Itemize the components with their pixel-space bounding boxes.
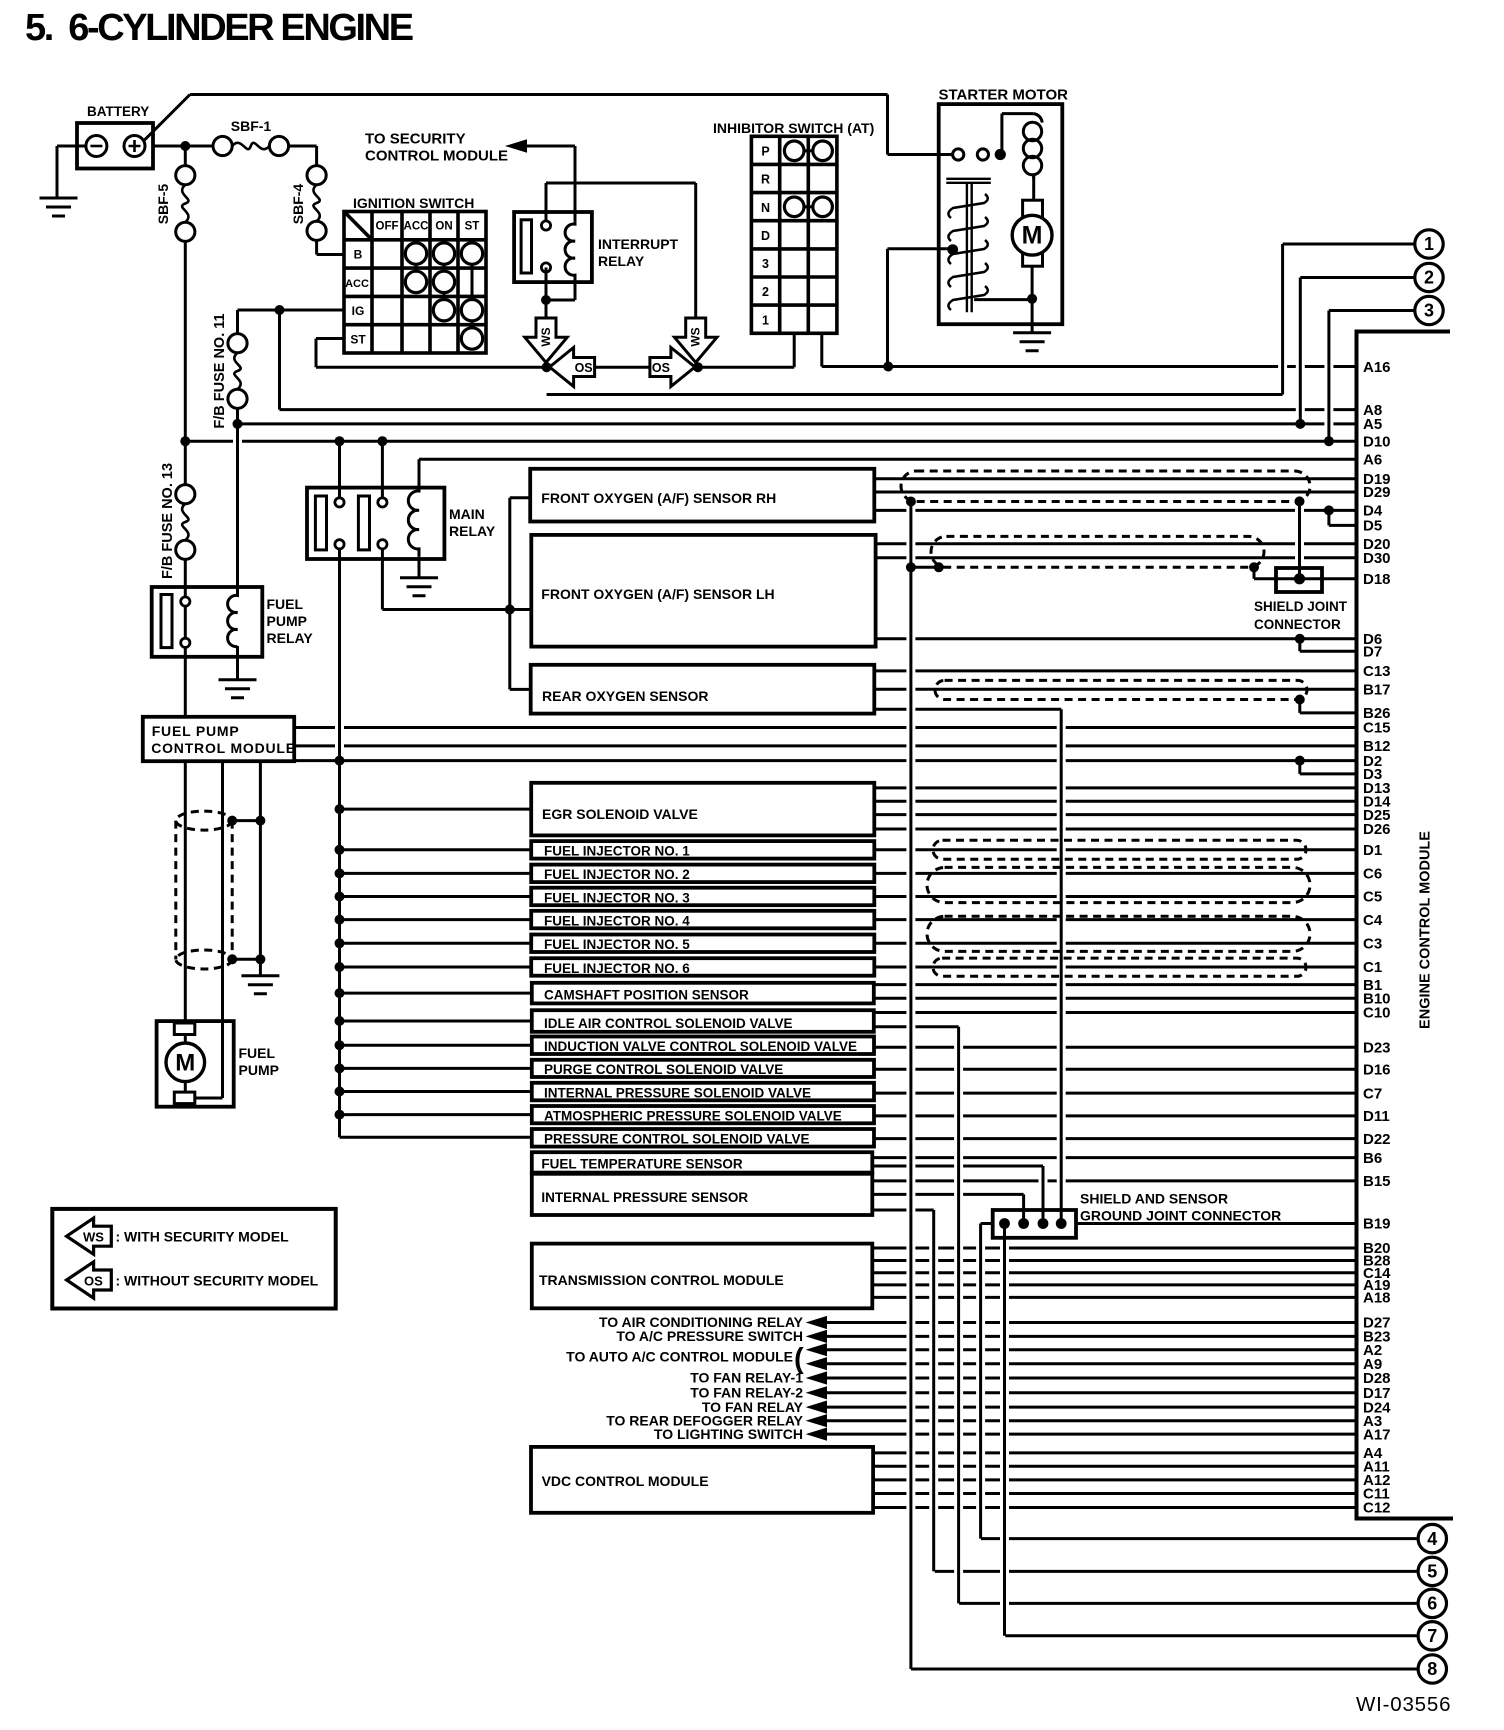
node feed bus junction xyxy=(335,1087,345,1097)
wire D19 wire xyxy=(874,477,1357,480)
svg-text:BATTERY: BATTERY xyxy=(87,104,149,119)
main relay coil xyxy=(408,488,419,557)
svg-text:B6: B6 xyxy=(1363,1150,1382,1167)
wire C15 wire xyxy=(294,726,1357,729)
svg-text:ST: ST xyxy=(465,221,480,233)
wire D17 wire xyxy=(827,1391,1357,1394)
purge control solenoid valve box xyxy=(532,1060,874,1077)
svg-text:D7: D7 xyxy=(1363,643,1382,660)
svg-text:TO LIGHTING SWITCH: TO LIGHTING SWITCH xyxy=(654,1426,803,1442)
node conn2-A5 junction xyxy=(1295,419,1305,429)
node starter armature junction xyxy=(1027,294,1037,304)
wire inhibitor col3 drop xyxy=(820,334,823,367)
node IG junction xyxy=(275,305,285,315)
wire connector 6 wire xyxy=(959,1602,1418,1605)
wire D22 wire xyxy=(874,1137,1357,1140)
svg-text:SBF-4: SBF-4 xyxy=(290,184,306,225)
wire idle air to connector 6 wire xyxy=(874,1025,959,1028)
wire A12 wire xyxy=(873,1478,1357,1481)
node fp shield top junction R xyxy=(255,816,265,826)
wire A17 wire xyxy=(827,1433,1357,1436)
svg-text:FRONT OXYGEN (A/F) SENSOR LH: FRONT OXYGEN (A/F) SENSOR LH xyxy=(541,586,774,602)
svg-text:B: B xyxy=(354,248,363,262)
main relay pin risers xyxy=(340,441,383,498)
wire shield A to joint connector drop xyxy=(1298,501,1301,578)
wire D1 wire xyxy=(874,848,1357,851)
svg-text:D18: D18 xyxy=(1363,571,1391,588)
wire connector 2 lead xyxy=(1300,276,1415,279)
rear oxygen sensor box xyxy=(531,665,875,714)
node D2-D3 junction xyxy=(1295,756,1305,766)
wire D10 wire xyxy=(185,440,1357,443)
svg-text:C13: C13 xyxy=(1363,663,1391,680)
node battery junction xyxy=(180,141,190,151)
starter motor box xyxy=(939,104,1063,324)
arrowhead arrow A9 xyxy=(806,1357,827,1370)
svg-text:3: 3 xyxy=(1424,301,1434,321)
wire fuel pump relay coil ground lead xyxy=(236,646,239,680)
node WS-OS junction 2 xyxy=(693,362,703,372)
arrow WS 2 xyxy=(675,318,717,363)
wire connector 3 riser xyxy=(1327,311,1330,442)
wire D27 wire xyxy=(827,1321,1357,1324)
legend WS arrow xyxy=(67,1218,112,1254)
svg-text:1: 1 xyxy=(1424,234,1434,254)
wire component feed stub xyxy=(340,895,532,898)
fuel pump relay box xyxy=(152,587,263,657)
wire SBF-4 bottom lead xyxy=(315,240,318,254)
svg-text:FUEL INJECTOR NO. 5: FUEL INJECTOR NO. 5 xyxy=(544,937,690,952)
legend box xyxy=(52,1209,335,1309)
node fp shield top junction L xyxy=(227,816,237,826)
svg-text:ACC: ACC xyxy=(404,221,429,233)
wire connector 1 net lower xyxy=(547,393,1283,396)
fuel pump relay coil xyxy=(228,593,238,647)
svg-text:D5: D5 xyxy=(1363,518,1382,535)
wire D14 wire xyxy=(874,800,1357,803)
node ground joint connector node xyxy=(1018,1218,1029,1229)
svg-text:OFF: OFF xyxy=(376,221,399,233)
wire shield B left link xyxy=(911,566,939,569)
wire D7 wire xyxy=(1300,650,1357,653)
node ground joint connector node xyxy=(999,1218,1010,1229)
wire component feed stub xyxy=(340,1044,532,1047)
svg-text:R: R xyxy=(761,173,770,187)
svg-text:ST: ST xyxy=(350,333,366,347)
svg-text:SBF-1: SBF-1 xyxy=(231,118,272,134)
svg-text:OS: OS xyxy=(652,361,670,375)
node O2 feed junction xyxy=(505,605,515,615)
svg-text:SBF-5: SBF-5 xyxy=(155,184,171,225)
wire D6 wire xyxy=(874,637,1357,640)
svg-text:FUEL TEMPERATURE SENSOR: FUEL TEMPERATURE SENSOR xyxy=(541,1157,743,1172)
wire C10 wire xyxy=(874,1011,1357,1014)
VDC control module box xyxy=(531,1447,873,1513)
wire ST row drop xyxy=(315,339,318,368)
svg-text:FUEL: FUEL xyxy=(239,1045,276,1061)
node WS-OS junction 1 xyxy=(542,362,552,372)
ground main relay ground xyxy=(400,578,438,596)
svg-text:FRONT OXYGEN (A/F) SENSOR RH: FRONT OXYGEN (A/F) SENSOR RH xyxy=(541,490,776,506)
wire C7 wire xyxy=(874,1092,1357,1095)
wire A18 wire xyxy=(872,1296,1357,1299)
svg-text:SHIELD AND SENSOR: SHIELD AND SENSOR xyxy=(1080,1191,1228,1207)
internal pressure sensor box xyxy=(532,1174,873,1215)
node shield B left junction 2 xyxy=(934,562,944,572)
svg-text:D26: D26 xyxy=(1363,821,1391,838)
node relay bus-D2 junction xyxy=(335,756,345,766)
svg-text:TRANSMISSION CONTROL MODULE: TRANSMISSION CONTROL MODULE xyxy=(539,1272,784,1288)
svg-text:C15: C15 xyxy=(1363,720,1391,737)
wire battery + to SBF-1 xyxy=(153,145,213,148)
svg-text:F/B FUSE NO. 13: F/B FUSE NO. 13 xyxy=(160,463,176,579)
wire A11 wire xyxy=(873,1465,1357,1468)
svg-text:B19: B19 xyxy=(1363,1216,1391,1233)
node feed bus junction xyxy=(335,915,345,925)
wire connector 4 wire xyxy=(981,1537,1418,1540)
svg-text:B15: B15 xyxy=(1363,1173,1391,1190)
battery B1 box xyxy=(77,123,153,169)
wire D23 wire xyxy=(874,1046,1357,1049)
engine control module outline xyxy=(1357,332,1454,1519)
svg-text:PUMP: PUMP xyxy=(239,1062,279,1078)
wire C5 wire xyxy=(874,895,1357,898)
connector circle 4 xyxy=(1418,1524,1446,1552)
node fp shield bottom junction L xyxy=(227,954,237,964)
shield and sensor ground joint connector box xyxy=(993,1210,1076,1238)
wire D11 wire xyxy=(874,1114,1357,1117)
wire connector 1 lead xyxy=(1283,243,1415,246)
ground fuel pump relay ground xyxy=(219,680,257,698)
node feed bus junction xyxy=(335,1016,345,1026)
svg-text:RELAY: RELAY xyxy=(267,630,314,646)
starter plunger spring xyxy=(948,194,987,310)
wire internal pressure sensor wire 2 xyxy=(872,1193,1023,1196)
svg-text:A18: A18 xyxy=(1363,1290,1391,1307)
wire A16 net left segment xyxy=(316,366,794,369)
fuel injector no.1 box xyxy=(531,841,874,859)
svg-text:ACC: ACC xyxy=(345,278,369,290)
svg-text:PUMP: PUMP xyxy=(267,613,307,629)
arrowhead TO REAR DEFOGGER RELAY xyxy=(806,1414,827,1427)
wire A16 net right segment xyxy=(822,365,1357,368)
wire front O2 shield ground bus xyxy=(909,502,912,1670)
node feed bus junction xyxy=(335,892,345,902)
wire battery + top rail xyxy=(190,93,888,96)
fuse F/B fuse No.11 xyxy=(228,334,247,353)
wire main relay coil ground lead xyxy=(418,557,421,578)
svg-text:FUEL INJECTOR NO. 6: FUEL INJECTOR NO. 6 xyxy=(544,961,690,976)
wire B12 wire xyxy=(294,744,1357,747)
shield injector 6 (C1) xyxy=(933,958,1306,976)
wire A4 wire xyxy=(873,1451,1357,1454)
svg-text:A5: A5 xyxy=(1363,416,1382,433)
fuel injector no.3 box xyxy=(531,888,874,906)
node relay pin1-D10 junction xyxy=(335,436,345,446)
wire A2 wire xyxy=(827,1348,1357,1351)
svg-text:TO SECURITY: TO SECURITY xyxy=(365,131,466,148)
wire starter motor bottom link xyxy=(974,298,1032,301)
svg-text:A16: A16 xyxy=(1363,359,1391,376)
fuel pump motor M xyxy=(185,1035,222,1099)
arrow OS 1 xyxy=(550,348,595,387)
wire REAR sensor feed xyxy=(510,688,532,691)
starter solenoid coil xyxy=(1034,114,1043,123)
shield joint connector box xyxy=(1276,568,1322,592)
wire connector 5 wire xyxy=(935,1570,1418,1573)
connector circle 7 xyxy=(1418,1622,1446,1650)
connector circle 1 xyxy=(1415,230,1443,258)
node D6-D7 junction xyxy=(1295,634,1305,644)
wire D16 wire xyxy=(874,1068,1357,1071)
shield front O2 LH (D20/D30) xyxy=(931,536,1264,567)
wire connector 1 riser xyxy=(1281,244,1284,395)
svg-text:C3: C3 xyxy=(1363,936,1382,953)
node shield A left junction xyxy=(906,497,916,507)
node feed bus junction xyxy=(335,1110,345,1120)
ground battery ground xyxy=(40,198,78,216)
wire idle air drop xyxy=(957,1027,960,1604)
ground starter motor ground xyxy=(1013,333,1051,351)
connector circle 8 xyxy=(1418,1655,1446,1683)
svg-text:F/B FUSE NO. 11: F/B FUSE NO. 11 xyxy=(212,313,228,428)
pressure control solenoid valve box xyxy=(532,1129,874,1147)
wire internal pressure sensor wire 3 xyxy=(872,1209,933,1212)
wire fuel temp sensor shield wire xyxy=(872,1165,1043,1168)
inhibitor switch table xyxy=(751,136,837,333)
svg-text:REAR OXYGEN SENSOR: REAR OXYGEN SENSOR xyxy=(542,688,708,704)
arrowhead TO FAN RELAY xyxy=(806,1401,827,1414)
internal pressure solenoid valve box xyxy=(532,1083,874,1101)
fuse F/B fuse No.13 xyxy=(176,485,195,504)
wire B26 wire xyxy=(1300,711,1357,714)
svg-text:MAIN: MAIN xyxy=(449,506,485,522)
wire battery - down lead xyxy=(56,146,59,198)
wire B1 wire xyxy=(874,983,1357,986)
svg-text:PURGE CONTROL SOLENOID VALVE: PURGE CONTROL SOLENOID VALVE xyxy=(544,1062,783,1077)
wire D5 wire xyxy=(1329,524,1357,527)
main relay contact 2 xyxy=(358,496,369,550)
svg-text:PRESSURE CONTROL SOLENOID VALV: PRESSURE CONTROL SOLENOID VALVE xyxy=(544,1132,810,1147)
node ground joint connector node xyxy=(1038,1218,1049,1229)
wire D28 wire xyxy=(827,1377,1357,1380)
ignition switch contact links xyxy=(416,264,472,328)
wire A6 wire xyxy=(419,458,1357,461)
node shield B right junction xyxy=(1249,562,1259,572)
wire armature to ground xyxy=(1031,266,1034,333)
starter plunger T-bar xyxy=(946,179,991,183)
node feed bus junction xyxy=(335,868,345,878)
wire C12 wire xyxy=(873,1506,1357,1509)
wire starter input wire xyxy=(888,153,953,156)
wire fuel pump shield bottom link xyxy=(232,958,260,961)
svg-text:5. 6-CYLINDER ENGINE: 5. 6-CYLINDER ENGINE xyxy=(25,7,413,49)
shield rear O2 (B17) xyxy=(935,680,1307,699)
connector circle 3 xyxy=(1415,296,1443,324)
wire D30 wire xyxy=(874,556,1357,559)
svg-text:INTERNAL PRESSURE SENSOR: INTERNAL PRESSURE SENSOR xyxy=(541,1190,748,1205)
svg-text:CONTROL MODULE: CONTROL MODULE xyxy=(365,148,508,165)
arrowhead TO LIGHTING SWITCH xyxy=(806,1428,827,1441)
svg-text:6: 6 xyxy=(1427,1594,1437,1614)
wire interrupt relay pin to dot xyxy=(545,268,548,319)
node feed bus junction xyxy=(335,938,345,948)
wire starter contact riser xyxy=(1000,114,1003,155)
fuel pump upper terminal xyxy=(174,1023,195,1035)
node starter-A16 junction xyxy=(883,362,893,372)
node fp shield bottom junction R xyxy=(255,954,265,964)
shield front O2 RH (D19/D29) xyxy=(901,471,1310,502)
wire starter contact to A16 drop xyxy=(886,249,889,367)
shield fuel pump wires xyxy=(176,811,232,969)
wire interrupt coil to security lead xyxy=(574,146,577,221)
fuse SBF-1 xyxy=(213,136,232,155)
ignition switch table xyxy=(344,212,486,354)
wire component feed stub xyxy=(340,808,532,811)
svg-text:WS: WS xyxy=(689,327,703,346)
svg-text:1: 1 xyxy=(762,313,769,327)
camshaft position sensor box xyxy=(532,983,874,1004)
fuel temperature sensor box xyxy=(532,1152,873,1172)
wire SBF-5 top lead xyxy=(184,146,187,166)
node shield joint connector node xyxy=(1294,573,1305,584)
svg-text:SHIELD JOINT: SHIELD JOINT xyxy=(1254,599,1348,614)
node feed bus junction xyxy=(335,1040,345,1050)
node SBF5-D10 junction xyxy=(180,436,190,446)
svg-text:C10: C10 xyxy=(1363,1005,1391,1022)
svg-text:WS: WS xyxy=(539,327,553,346)
wire int pressure sensor 3 drop xyxy=(932,1210,935,1571)
svg-text:RELAY: RELAY xyxy=(449,523,496,539)
wire to security control module lead xyxy=(527,145,575,148)
wire component feed stub xyxy=(340,1136,532,1139)
fuel pump relay contact xyxy=(161,595,172,648)
svg-text:IG: IG xyxy=(352,304,365,318)
connector circle 6 xyxy=(1418,1589,1446,1617)
fuel pump box xyxy=(157,1021,234,1107)
wire D2-D3 jumper xyxy=(1298,761,1301,774)
svg-text:INTERNAL PRESSURE SOLENOID VAL: INTERNAL PRESSURE SOLENOID VALVE xyxy=(544,1085,811,1100)
wire component feed stub xyxy=(340,1090,532,1093)
node D4-D5 junction xyxy=(1324,505,1334,515)
wire component feed stub xyxy=(340,918,532,921)
wire component feed stub xyxy=(340,1067,532,1070)
wire B20 wire xyxy=(872,1247,1357,1250)
wire SBF-5 to fuse 13 bus xyxy=(184,241,187,484)
svg-text:FUEL: FUEL xyxy=(267,596,304,612)
wire D3 wire xyxy=(1300,772,1357,775)
wire interrupt relay top pin riser xyxy=(545,183,548,221)
wire SBF-1 to SBF-4 xyxy=(289,145,317,148)
arrowhead TO A/C PRESSURE SWITCH xyxy=(806,1330,827,1343)
wire SBF-4 top lead xyxy=(315,146,318,166)
svg-text:5: 5 xyxy=(1427,1562,1437,1582)
wire C6 wire xyxy=(874,872,1357,875)
fuse SBF-4 xyxy=(307,166,326,185)
wire component feed stub xyxy=(340,942,532,945)
wire battery - to ground lead xyxy=(57,145,87,148)
svg-text:IGNITION SWITCH: IGNITION SWITCH xyxy=(353,195,474,211)
svg-text:D16: D16 xyxy=(1363,1062,1391,1079)
arrow OS 2 xyxy=(650,348,695,387)
wire fuel temp shield drop xyxy=(1042,1166,1045,1224)
svg-text:D29: D29 xyxy=(1363,484,1391,501)
wire C11 wire xyxy=(873,1492,1357,1495)
wire fuse 11 bottom lead xyxy=(236,408,239,593)
svg-text:C6: C6 xyxy=(1363,866,1382,883)
svg-text:7: 7 xyxy=(1427,1626,1437,1646)
shield injectors 4-5 (C4/C3) xyxy=(927,916,1310,951)
wire WS2 riser xyxy=(694,183,697,318)
wire A8 wire xyxy=(280,408,1358,411)
svg-text:D22: D22 xyxy=(1363,1131,1391,1148)
svg-text:A6: A6 xyxy=(1363,451,1382,468)
svg-text:WS: WS xyxy=(83,1230,104,1245)
node starter moving contact xyxy=(947,244,958,255)
svg-text:OS: OS xyxy=(575,361,593,375)
arrowhead arrow A2 xyxy=(806,1343,827,1356)
wire starter coil top link xyxy=(1002,112,1034,115)
wire fuse 13 to fuel pump relay lead xyxy=(184,559,187,597)
wire main relay to LH sensor feed xyxy=(382,608,531,611)
wire C3 wire xyxy=(874,942,1357,945)
wire connector 2 riser xyxy=(1299,278,1302,424)
svg-text:INDUCTION VALVE CONTROL SOLENO: INDUCTION VALVE CONTROL SOLENOID VALVE xyxy=(544,1039,857,1054)
fuse SBF-5 xyxy=(176,166,195,185)
svg-text:A17: A17 xyxy=(1363,1426,1391,1443)
ignition switch contact circles xyxy=(405,243,426,264)
wire fuel pump relay to module lead xyxy=(184,606,187,717)
node shield B left junction 1 xyxy=(906,562,916,572)
node feed bus junction xyxy=(335,988,345,998)
svg-text:: WITH SECURITY MODEL: : WITH SECURITY MODEL xyxy=(116,1229,290,1245)
svg-text:C12: C12 xyxy=(1363,1500,1391,1517)
svg-text:CONNECTOR: CONNECTOR xyxy=(1254,617,1341,632)
svg-text:M: M xyxy=(1022,222,1043,250)
wire ground connector left drop xyxy=(979,1224,982,1539)
svg-text:CAMSHAFT POSITION SENSOR: CAMSHAFT POSITION SENSOR xyxy=(544,988,749,1003)
EGR solenoid valve box xyxy=(531,783,874,836)
connector circle 2 xyxy=(1415,263,1443,291)
wire B28 wire xyxy=(872,1259,1357,1262)
wire fuel pump return jumper xyxy=(195,1097,223,1100)
wire oxygen sensor feed riser xyxy=(508,498,511,690)
wire rear O2 shield drop xyxy=(1060,709,1063,1223)
wire shield C to B26 jumper xyxy=(1298,700,1301,713)
wire D20 wire xyxy=(874,542,1357,545)
svg-text:D23: D23 xyxy=(1363,1039,1391,1056)
wire fuel pump shield ground lead xyxy=(259,761,262,976)
node relay pin2-D10 junction xyxy=(377,436,387,446)
svg-text:FUEL INJECTOR NO. 2: FUEL INJECTOR NO. 2 xyxy=(544,867,690,882)
wire component feed stub xyxy=(340,992,532,995)
svg-text:C1: C1 xyxy=(1363,959,1382,976)
wire B15 wire xyxy=(872,1179,1357,1182)
transmission control module box xyxy=(532,1244,873,1309)
starter contact circles xyxy=(953,149,964,160)
wire D4-D5 jumper xyxy=(1327,510,1330,525)
wire A3 wire xyxy=(827,1419,1357,1422)
svg-text:M: M xyxy=(175,1050,195,1077)
wire fuel pump shield top link xyxy=(232,819,260,822)
svg-text:P: P xyxy=(761,145,769,159)
svg-text:TO AUTO A/C CONTROL MODULE: TO AUTO A/C CONTROL MODULE xyxy=(566,1349,793,1365)
svg-text:(: ( xyxy=(794,1343,804,1375)
svg-text:D30: D30 xyxy=(1363,550,1391,567)
wire D4 wire xyxy=(874,509,1357,512)
svg-text:INHIBITOR SWITCH (AT): INHIBITOR SWITCH (AT) xyxy=(713,120,874,136)
wire starter moving contact wire xyxy=(888,247,951,250)
